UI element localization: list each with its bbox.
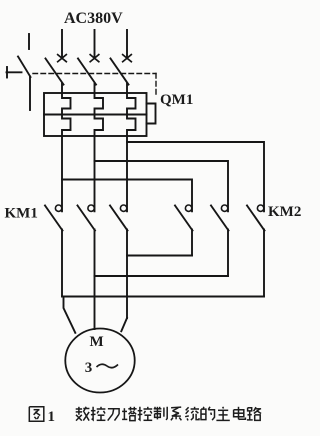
svg-text:KM1: KM1 (5, 206, 38, 222)
svg-text:3: 3 (85, 360, 93, 376)
svg-text:AC380V: AC380V (64, 10, 123, 27)
svg-text:QM1: QM1 (160, 92, 193, 108)
svg-text:M: M (90, 334, 104, 350)
svg-text:KM2: KM2 (268, 204, 301, 220)
svg-text:1: 1 (48, 409, 56, 425)
